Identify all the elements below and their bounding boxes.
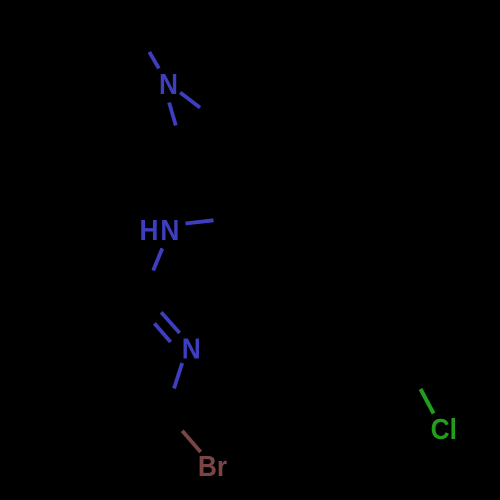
svg-text:N: N (160, 214, 179, 246)
bond N1-CH3 (right) (180, 93, 200, 108)
pyridine N=C2 double bond inner (154, 323, 170, 342)
pyridine N=C2 double bond outer (161, 312, 179, 333)
label N (pyridine) (182, 332, 201, 364)
label Cl (431, 413, 457, 445)
pyridine N-C6 bond (174, 363, 182, 389)
svg-text:Br: Br (198, 450, 228, 482)
label HN : H (139, 214, 158, 246)
svg-text:H: H (139, 214, 158, 246)
svg-text:Cl: Cl (431, 413, 457, 445)
label Br (198, 450, 228, 482)
bond N1-CH2 (down) (169, 103, 176, 126)
bond C-Cl (green half) (421, 389, 434, 414)
label HN : N (160, 214, 179, 246)
bond C6-Br (dark red half) (182, 431, 200, 452)
label N (dimethylamino N) (159, 68, 178, 100)
svg-text:N: N (159, 68, 178, 100)
bond HN-pyridine C2 (153, 248, 162, 270)
svg-text:N: N (182, 332, 201, 364)
amine N1 bonds (bright blue halves) (149, 52, 213, 389)
bond HN-C* (186, 220, 214, 223)
bond N1-methyl (149, 52, 159, 69)
